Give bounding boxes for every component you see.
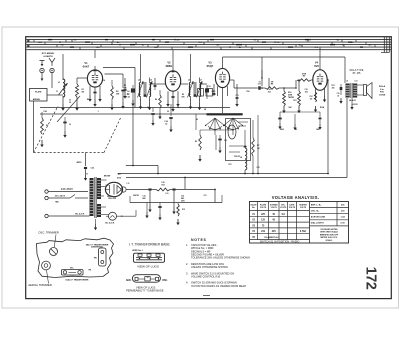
svg-text:.05: .05	[165, 124, 168, 126]
svg-text:EXT. AERIAL: EXT. AERIAL	[42, 52, 55, 55]
svg-text:3: 3	[190, 100, 191, 102]
svg-text:R16: R16	[246, 91, 249, 93]
svg-text:P.M.: P.M.	[380, 92, 385, 94]
svg-text:PERMEABILITY TUNER BASE: PERMEABILITY TUNER BASE	[126, 289, 164, 293]
svg-text:250: 250	[310, 98, 313, 100]
svg-text:TAPER: TAPER	[288, 96, 295, 99]
svg-text:(UNDERSIDE): (UNDERSIDE)	[91, 247, 103, 249]
svg-text:V4: V4	[315, 60, 319, 64]
svg-text:OSC. B+: OSC. B+	[311, 210, 320, 212]
svg-text:HEATER: HEATER	[299, 203, 307, 206]
svg-text:.05: .05	[69, 102, 71, 104]
svg-text:3.: 3.	[186, 271, 188, 275]
svg-text:230-240V: 230-240V	[55, 194, 66, 197]
svg-text:.05: .05	[337, 95, 339, 97]
svg-text:300: 300	[332, 87, 335, 89]
svg-text:.05: .05	[295, 129, 297, 131]
svg-text:PRI.: PRI.	[88, 270, 92, 272]
svg-text:OSC.: OSC.	[162, 280, 168, 282]
svg-text:3 B: 3 B	[60, 44, 64, 46]
svg-text:METER 1000 O.P.V.: METER 1000 O.P.V.	[320, 237, 337, 239]
svg-text:C8: C8	[177, 107, 179, 109]
svg-text:VALVE: VALVE	[250, 203, 257, 206]
svg-text:4.: 4.	[186, 281, 188, 285]
svg-text:SATOR: SATOR	[133, 194, 140, 197]
svg-text:No.: No.	[252, 207, 256, 209]
svg-text:C21: C21	[203, 195, 206, 197]
svg-text:C1: C1	[56, 91, 58, 93]
svg-text:AMP. L. B+: AMP. L. B+	[311, 203, 322, 206]
svg-text:AERIAL: AERIAL	[33, 98, 41, 101]
svg-text:25: 25	[167, 111, 169, 113]
svg-text:8MF: 8MF	[181, 198, 184, 200]
svg-text:ACROSS LINE: ACROSS LINE	[311, 216, 326, 219]
svg-text:SCALE.: SCALE.	[326, 239, 333, 242]
svg-text:AER.: AER.	[126, 279, 132, 282]
svg-text:IRRESPECTIVE OFF: IRRESPECTIVE OFF	[320, 234, 339, 236]
svg-text:C17: C17	[258, 84, 261, 86]
svg-text:DIAL LIGHTS: DIAL LIGHTS	[311, 222, 325, 225]
svg-text:3: 3	[140, 100, 141, 102]
svg-text:C4: C4	[103, 79, 105, 82]
svg-text:SCREEN: SCREEN	[270, 204, 278, 206]
svg-text:PRI.: PRI.	[94, 258, 98, 260]
svg-text:WIRE No.1: WIRE No.1	[132, 250, 143, 252]
svg-text:DIAL I.F. TRANSFORMER: DIAL I.F. TRANSFORMER	[66, 278, 89, 281]
svg-text:.006: .006	[304, 91, 307, 93]
svg-text:L9: L9	[346, 81, 348, 83]
svg-text:I.T. TRANSFORMER BASE: I.T. TRANSFORMER BASE	[129, 242, 170, 246]
svg-text:0.78A: 0.78A	[300, 230, 306, 233]
svg-text:4MFD: 4MFD	[77, 161, 83, 164]
svg-text:240-250V: 240-250V	[61, 188, 73, 191]
svg-text:PLATE: PLATE	[35, 91, 42, 94]
svg-text:C20: C20	[256, 167, 259, 169]
svg-text:C6: C6	[147, 107, 149, 109]
svg-text:R12A: R12A	[320, 106, 325, 109]
svg-text:6.3V: 6.3V	[341, 223, 346, 225]
svg-text:A B: A B	[38, 41, 42, 44]
svg-text:CATH.: CATH.	[289, 203, 295, 206]
svg-text:470K: 470K	[302, 72, 307, 75]
svg-text:C9: C9	[199, 86, 201, 88]
svg-text:C19: C19	[337, 93, 340, 95]
svg-text:L10: L10	[355, 81, 358, 83]
svg-text:V2: V2	[167, 60, 171, 64]
svg-text:172: 172	[363, 267, 379, 290]
svg-text:6V6: 6V6	[314, 64, 319, 68]
svg-text:V3: V3	[208, 60, 212, 64]
svg-text:R6: R6	[195, 141, 197, 143]
svg-text:UNLESS OTHERWISE SHOWN: UNLESS OTHERWISE SHOWN	[191, 265, 228, 269]
svg-text:WITH GREY SCALE: WITH GREY SCALE	[320, 231, 338, 234]
svg-text:6800: 6800	[280, 129, 284, 131]
svg-text:SEC.: SEC.	[70, 267, 74, 269]
svg-text:L10: L10	[166, 193, 169, 195]
svg-text:VOLTS: VOLTS	[289, 207, 296, 209]
svg-text:C16: C16	[181, 196, 184, 198]
svg-text:VIEW OF LUGS: VIEW OF LUGS	[137, 264, 159, 268]
svg-text:SWITCH S1 IN POSITION - RADIO: SWITCH S1 IN POSITION - RADIO	[260, 241, 300, 244]
svg-text:BLACK: BLACK	[349, 99, 356, 102]
svg-text:R4: R4	[155, 98, 157, 101]
svg-text:PICK-UP: PICK-UP	[234, 156, 240, 158]
svg-text:VOLTAGE ANALYSIS.: VOLTAGE ANALYSIS.	[272, 195, 320, 200]
svg-text:25: 25	[147, 277, 149, 279]
svg-text:R3: R3	[46, 125, 48, 127]
svg-text:VOLUME CONTROL R10: VOLUME CONTROL R10	[191, 275, 221, 279]
svg-text:PLATE: PLATE	[260, 203, 267, 206]
svg-text:BLACK: BLACK	[105, 222, 114, 225]
svg-text:R8: R8	[271, 84, 273, 86]
svg-text:OSC.: OSC.	[281, 204, 286, 206]
svg-text:VOLTS: VOLTS	[300, 207, 307, 209]
svg-text:& EARTH: & EARTH	[43, 55, 53, 58]
svg-text:VOLTAGES NOTED: VOLTAGES NOTED	[320, 228, 338, 231]
svg-text:L11: L11	[127, 183, 130, 185]
svg-text:R15: R15	[182, 209, 185, 211]
svg-text:TOLERANCE 20% UNLESS OTHERWISE: TOLERANCE 20% UNLESS OTHERWISE SHOWN	[191, 256, 250, 260]
svg-text:8MF: 8MF	[142, 198, 145, 200]
svg-text:L8: L8	[240, 157, 242, 159]
svg-text:8 in: 8 in	[380, 89, 384, 91]
svg-text:R17: R17	[228, 164, 231, 166]
svg-text:FILAMENT A.C.: FILAMENT A.C.	[264, 236, 280, 239]
svg-text:6B8G: 6B8G	[166, 64, 173, 68]
svg-text:L7: L7	[200, 80, 202, 82]
svg-text:2.: 2.	[186, 262, 188, 266]
svg-text:7: 7	[149, 100, 150, 102]
svg-text:BLACK: BLACK	[75, 212, 84, 215]
svg-text:8MF: 8MF	[316, 129, 319, 131]
svg-text:L5: L5	[150, 80, 152, 82]
svg-text:NOTES: NOTES	[191, 238, 207, 242]
svg-text:IN POSITION RADIO AS VIEWED FR: IN POSITION RADIO AS VIEWED FROM REAR	[191, 284, 246, 288]
svg-text:R9: R9	[303, 76, 305, 78]
svg-text:C6: C6	[69, 124, 71, 126]
svg-text:R2: R2	[87, 99, 89, 101]
svg-text:VOLTS: VOLTS	[260, 207, 267, 209]
svg-text:.01: .01	[258, 81, 261, 83]
svg-text:11: 11	[147, 258, 149, 260]
svg-text:VOICE: VOICE	[352, 104, 358, 106]
svg-text:VOLTS: VOLTS	[271, 207, 278, 209]
svg-text:R12: R12	[310, 96, 313, 98]
svg-text:S2: S2	[196, 119, 198, 121]
svg-text:R11: R11	[293, 100, 296, 102]
svg-text:L6: L6	[188, 80, 190, 82]
svg-text:OSC. TRIMMER: OSC. TRIMMER	[38, 230, 59, 234]
svg-text:8T- M5: 8T- M5	[353, 72, 361, 75]
svg-text:BROWN: BROWN	[104, 176, 111, 178]
svg-text:C15: C15	[142, 196, 145, 198]
svg-text:1.: 1.	[186, 243, 188, 247]
svg-text:.1: .1	[97, 111, 98, 113]
svg-text:C22: C22	[91, 168, 94, 170]
svg-text:C7: C7	[154, 89, 156, 91]
svg-text:YELLOW: YELLOW	[108, 198, 116, 200]
svg-text:7: 7	[199, 100, 200, 102]
svg-text:6SQ7: 6SQ7	[207, 64, 214, 68]
svg-text:CONE: CONE	[379, 94, 386, 96]
svg-text:5Y3: 5Y3	[105, 185, 108, 187]
svg-text:VOLTS: VOLTS	[280, 207, 287, 209]
svg-text:V1: V1	[84, 61, 88, 65]
svg-text:L4: L4	[138, 79, 140, 82]
svg-text:T1: T1	[86, 174, 88, 176]
svg-text:ROLA: ROLA	[379, 85, 386, 88]
svg-text:6AK7: 6AK7	[83, 65, 90, 69]
svg-text:C10: C10	[208, 86, 211, 88]
svg-text:.002: .002	[267, 91, 270, 93]
